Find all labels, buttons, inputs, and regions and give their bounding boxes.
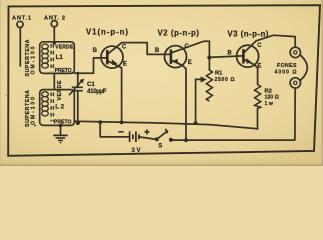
svg-text:V2 (p-n-p): V2 (p-n-p) [158,28,200,37]
svg-text:V1(n-p-n): V1(n-p-n) [86,27,128,36]
svg-text:PRETO: PRETO [55,68,72,74]
svg-text:4000 Ω: 4000 Ω [275,69,297,75]
svg-text:1 w: 1 w [265,101,274,107]
svg-text:PRETO: PRETO [54,119,72,125]
svg-text:S: S [158,143,162,149]
svg-text:V3 (n-p-n): V3 (n-p-n) [227,29,268,38]
svg-text:L1: L1 [56,54,64,61]
svg-text:VERDE: VERDE [55,44,74,50]
svg-text:VERDE: VERDE [57,80,63,100]
svg-text:410µµF: 410µµF [87,88,107,95]
svg-text:ANT.1: ANT.1 [12,15,31,21]
svg-text:R2: R2 [265,89,272,95]
svg-text:C: C [257,43,262,49]
svg-text:3 V: 3 V [132,148,141,154]
svg-text:C: C [122,44,127,50]
svg-text:2500 Ω: 2500 Ω [215,77,235,83]
svg-text:R1: R1 [215,71,223,77]
svg-text:ANT. 2: ANT. 2 [44,15,65,21]
svg-text:E: E [188,60,192,66]
svg-text:C: C [185,44,190,50]
svg-text:L 2: L 2 [55,104,64,111]
svg-text:120 Ω: 120 Ω [265,95,279,101]
svg-text:FONES: FONES [277,63,297,69]
svg-text:B: B [155,48,160,54]
svg-text:E: E [257,63,261,69]
svg-text:B: B [93,48,98,54]
svg-text:B: B [227,50,232,56]
svg-text:E: E [123,62,127,68]
svg-text:C1: C1 [87,82,95,88]
